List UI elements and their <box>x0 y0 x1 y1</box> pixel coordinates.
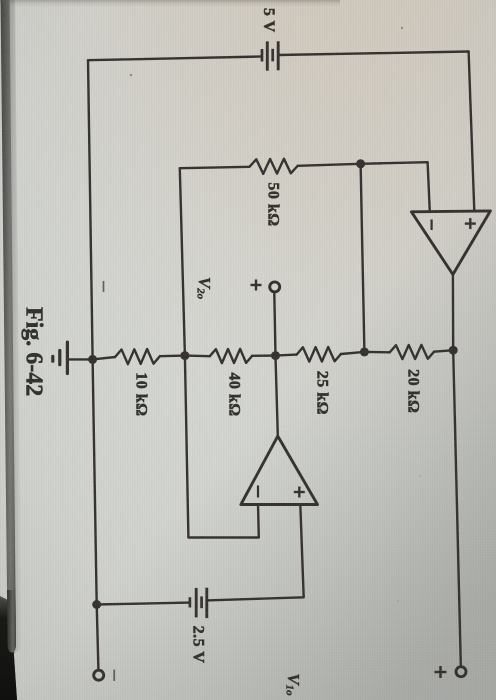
ground stem <box>69 358 93 360</box>
wire: resistor 40k right lead to node J6v <box>252 354 275 357</box>
op-amp U2 plus label <box>294 487 305 498</box>
terminal V2o <box>270 282 280 292</box>
wire: node J2 down to node J4 <box>361 164 365 352</box>
resistor 20 kOhm <box>390 345 434 359</box>
wire: resistor 25k right lead to node J4 <box>341 352 365 354</box>
wire: battery 5V left terminal to top-left corner <box>88 57 262 61</box>
wire: node J6 down to terminal T1 <box>97 605 99 669</box>
op-amp U2 <box>241 436 318 504</box>
terminal T1 minus label <box>113 670 115 681</box>
wire: feedback node J3 down, right, up to op-amp U2 - input <box>185 356 259 538</box>
wire: op-amp U2 + input down to corner then left to battery 2.5V <box>207 505 304 601</box>
wire: terminal V2o down to node J6v <box>274 293 275 355</box>
wire: corner C2 down to node J3 <box>180 168 185 355</box>
node J2 <box>356 159 365 168</box>
ground <box>53 342 68 373</box>
battery 5V <box>262 41 278 70</box>
wire: battery 2.5V left terminal to node J6 <box>97 603 190 605</box>
wire: node J4 to resistor 20k left lead <box>364 351 389 354</box>
op-amp U1 <box>411 211 490 275</box>
battery 2.5V <box>190 588 207 618</box>
op-amp U1 minus label <box>431 220 433 231</box>
wire: left vertical from top-left corner down to node J1 <box>88 60 93 359</box>
stylus / bezel strip shadow <box>3 0 22 655</box>
wire: node J6v to resistor 25k left lead <box>276 355 297 356</box>
node J4 <box>360 347 369 356</box>
wire: top-right corner down to op-amp U1 + input <box>469 52 475 212</box>
wire: node J6v down to op-amp U2 output apex <box>276 356 278 437</box>
wire: node J1 down to node J6 <box>93 359 97 604</box>
wire: corner C2 to resistor 50k left lead <box>180 167 250 168</box>
wire: battery 5V right terminal to top-right corner <box>278 52 468 56</box>
node J5 <box>449 346 458 355</box>
minus label on left wire <box>103 281 105 292</box>
wire: resistor 10k right lead to node J3 <box>160 354 185 357</box>
stylus / bezel strip at left edge <box>1 0 17 653</box>
resistor 40 kOhm <box>210 349 252 363</box>
wire: resistor 50k right lead to node J2 <box>298 164 361 166</box>
terminal V2o plus label <box>251 280 262 291</box>
node J6v <box>271 351 280 360</box>
resistor 10 kOhm <box>115 349 160 364</box>
wire: node J5 down to terminal V1o <box>453 350 461 665</box>
specks <box>130 74 133 77</box>
wire: resistor 20k right lead to node J5 <box>434 350 453 352</box>
wire: node J1 to resistor 10k left lead <box>93 357 116 359</box>
wire: node J2 right then down to op-amp U1 - input <box>361 162 430 212</box>
wire: node J3 to resistor 40k left lead <box>185 354 210 357</box>
dark bottom-left corner wedge <box>0 596 17 700</box>
resistor 50 kOhm <box>249 159 297 174</box>
op-amp U1 plus label <box>465 218 476 229</box>
node J3 <box>180 351 189 360</box>
op-amp U2 minus label <box>257 486 259 498</box>
resistor 25 kOhm <box>297 347 341 362</box>
terminal V1o <box>456 667 466 677</box>
terminal T1 <box>94 670 104 680</box>
node J6 <box>92 600 101 609</box>
terminal V1o plus label <box>435 666 447 678</box>
wire: op-amp U1 output down to node J5 <box>452 275 455 351</box>
node J1 <box>88 355 97 364</box>
